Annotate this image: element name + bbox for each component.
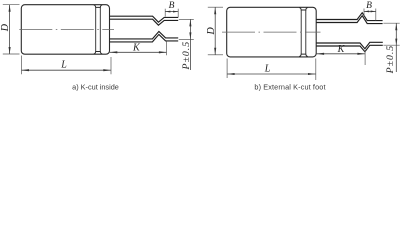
wire: bottom lead fig a (110, 31, 179, 39)
K extension line from kink (364, 51, 366, 65)
dimension B (fig a) extension lines (164, 9, 166, 17)
crimp (sleeve indent) fig b (299, 8, 308, 11)
capacitor body C (fig b) (227, 7, 317, 57)
svg-text:B: B (366, 1, 372, 11)
dimension D line + arrows (9, 5, 11, 54)
dimension B (fig b) extension lines (363, 9, 365, 17)
dimension D (fig b) extension lines (208, 6, 223, 8)
dimension D (fig a) extension lines (3, 4, 20, 6)
K extension line from kink (166, 41, 168, 55)
svg-text:b) External K-cut foot: b) External K-cut foot (254, 83, 325, 92)
wire: top lead fig a (110, 16, 179, 22)
dimension P (fig a) extension lines (179, 18, 194, 20)
crimp (sleeve indent) fig a (94, 5, 103, 8)
center line fig b (222, 31, 321, 33)
dimension L (fig b) extension lines (226, 59, 228, 79)
svg-text:D: D (0, 23, 11, 32)
dimension L line + arrows (22, 69, 111, 71)
center line fig a (19, 28, 114, 30)
dimension L line + arrows (227, 73, 315, 75)
svg-text:P±0.5: P±0.5 (181, 41, 192, 71)
dimension K (fig b) line + arrows (317, 53, 365, 55)
svg-text:P±0.5: P±0.5 (385, 45, 396, 75)
dimension P line + arrows (395, 23, 397, 72)
svg-text:K: K (337, 44, 346, 55)
capacitor body C (fig a) (21, 5, 109, 55)
dimension P line + arrows (189, 19, 191, 70)
wire: bottom lead fig b (316, 42, 382, 48)
svg-text:B: B (169, 1, 175, 11)
svg-text:K: K (132, 43, 141, 54)
dimension K (fig a) line + arrows (110, 51, 167, 53)
dimension L (fig a) extension lines (21, 56, 23, 75)
svg-text:D: D (206, 27, 217, 36)
svg-text:L: L (60, 60, 67, 71)
svg-text:a) K-cut inside: a) K-cut inside (72, 83, 119, 92)
wire: top lead fig b (316, 13, 382, 21)
dimension B line + arrows (165, 11, 178, 13)
dimension P (fig b) extension lines (383, 22, 399, 24)
svg-text:L: L (264, 63, 271, 74)
dimension D line + arrows (214, 7, 216, 55)
dimension B line + arrows (364, 10, 376, 12)
